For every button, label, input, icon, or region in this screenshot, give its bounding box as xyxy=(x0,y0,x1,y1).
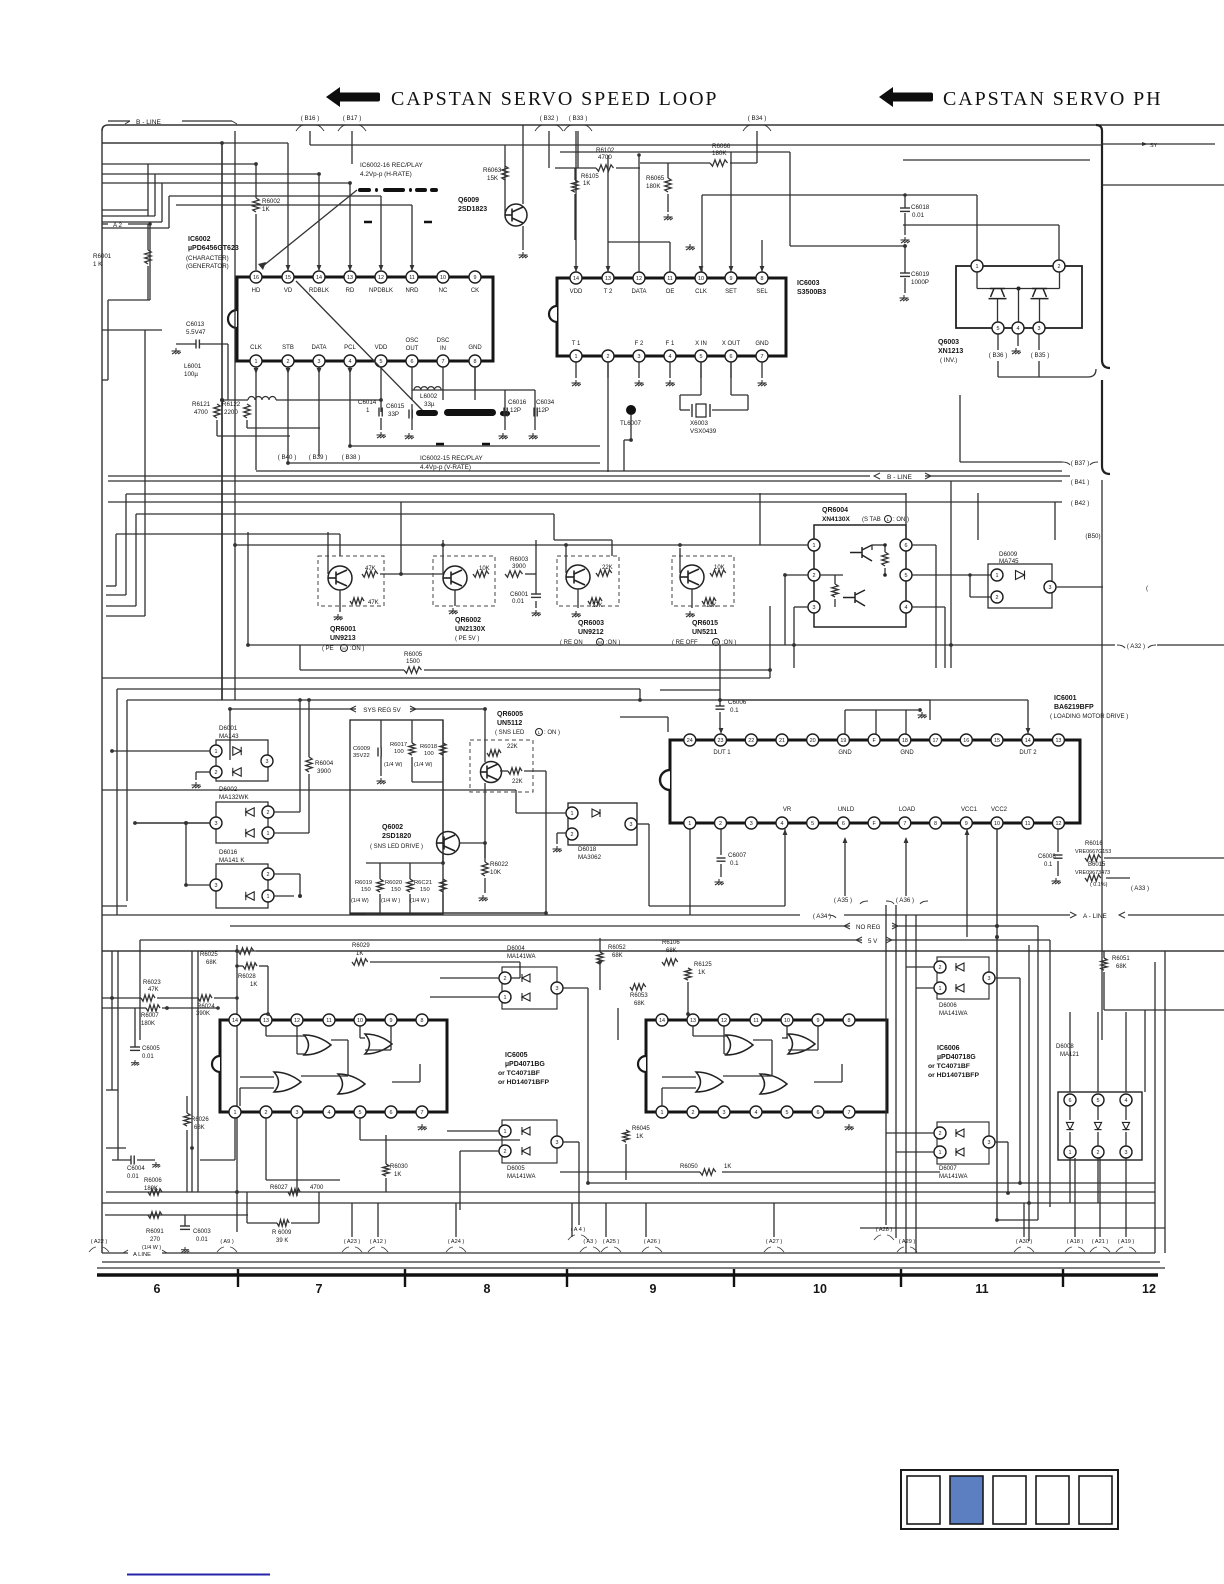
svg-text:14: 14 xyxy=(316,275,322,281)
svg-text:1: 1 xyxy=(939,1150,942,1156)
svg-text:QR6004: QR6004 xyxy=(822,507,848,514)
svg-text:( A29 ): ( A29 ) xyxy=(899,1239,916,1245)
svg-text:2: 2 xyxy=(504,976,507,982)
svg-text:1: 1 xyxy=(215,749,218,755)
svg-text:IC6002: IC6002 xyxy=(188,236,211,243)
svg-text:VCC2: VCC2 xyxy=(991,807,1008,813)
svg-text:4700: 4700 xyxy=(194,409,208,416)
svg-text:3: 3 xyxy=(266,759,269,765)
svg-text:µPD40718G: µPD40718G xyxy=(937,1054,976,1061)
svg-text:R6003: R6003 xyxy=(510,556,529,563)
svg-text:12: 12 xyxy=(1055,821,1061,827)
svg-text:3: 3 xyxy=(988,976,991,982)
svg-text:T 1: T 1 xyxy=(572,341,581,347)
svg-text:T 2: T 2 xyxy=(604,289,613,295)
svg-text:10: 10 xyxy=(994,821,1000,827)
svg-text:R6091: R6091 xyxy=(146,1229,164,1235)
svg-text:12: 12 xyxy=(1142,1282,1156,1296)
svg-text:7: 7 xyxy=(761,354,764,360)
svg-text:SY: SY xyxy=(1150,143,1158,149)
svg-text:IC6002-16 REC/PLAY: IC6002-16 REC/PLAY xyxy=(360,162,423,169)
svg-text:R6105: R6105 xyxy=(581,174,599,180)
svg-text:( A21 ): ( A21 ) xyxy=(1092,1239,1109,1245)
svg-text:10K: 10K xyxy=(479,566,490,572)
svg-text:6: 6 xyxy=(905,543,908,549)
svg-text:( 0.1%): ( 0.1%) xyxy=(1090,882,1108,888)
svg-text:(1/4 W ): (1/4 W ) xyxy=(410,898,429,904)
svg-text:BA6219BFP: BA6219BFP xyxy=(1054,704,1094,711)
svg-text:4: 4 xyxy=(669,354,672,360)
svg-text:D6006: D6006 xyxy=(939,1003,957,1009)
svg-text:8: 8 xyxy=(484,1282,491,1296)
svg-text::ON ): :ON ) xyxy=(350,646,364,652)
svg-text:CK: CK xyxy=(471,288,479,294)
svg-text:A - LINE: A - LINE xyxy=(1083,913,1107,920)
svg-text:1K: 1K xyxy=(250,982,257,988)
svg-text:9: 9 xyxy=(817,1018,820,1024)
svg-text:D6009: D6009 xyxy=(999,551,1018,558)
svg-text:12: 12 xyxy=(721,1018,727,1024)
svg-text:13: 13 xyxy=(1055,738,1061,744)
svg-text:5 V: 5 V xyxy=(868,938,878,945)
svg-text:PCL: PCL xyxy=(344,345,356,351)
svg-text:2SD1823: 2SD1823 xyxy=(458,206,487,213)
svg-text:B - LINE: B - LINE xyxy=(887,474,913,481)
svg-text:R6029: R6029 xyxy=(352,943,370,949)
svg-text:(1/4 W ): (1/4 W ) xyxy=(381,898,400,904)
svg-text:( INV.): ( INV.) xyxy=(940,357,957,364)
svg-text:68K: 68K xyxy=(612,953,623,959)
svg-text:4: 4 xyxy=(328,1110,331,1116)
svg-text:1: 1 xyxy=(504,1129,507,1135)
svg-text:( A36 ): ( A36 ) xyxy=(896,897,914,904)
svg-text:(B50): (B50) xyxy=(1085,533,1100,540)
svg-text:R6028: R6028 xyxy=(238,974,256,980)
svg-text:10: 10 xyxy=(784,1018,790,1024)
svg-text:13: 13 xyxy=(690,1018,696,1024)
svg-text:10: 10 xyxy=(813,1282,827,1296)
svg-text:( B17 ): ( B17 ) xyxy=(343,115,362,122)
svg-text:( A26 ): ( A26 ) xyxy=(644,1239,661,1245)
svg-text:LOAD: LOAD xyxy=(899,807,916,813)
svg-text:or HD14071BFP: or HD14071BFP xyxy=(498,1079,549,1086)
svg-text:R6026: R6026 xyxy=(191,1117,209,1123)
svg-text:R 6009: R 6009 xyxy=(272,1230,292,1236)
svg-text:C6005: C6005 xyxy=(142,1046,160,1052)
svg-text:14: 14 xyxy=(573,276,579,282)
svg-text:CLK: CLK xyxy=(250,345,262,351)
svg-text:( A24 ): ( A24 ) xyxy=(448,1239,465,1245)
svg-text:12P: 12P xyxy=(510,407,521,414)
svg-text:M: M xyxy=(598,640,602,645)
svg-text:CLK: CLK xyxy=(695,289,707,295)
svg-text:1: 1 xyxy=(255,359,258,365)
svg-text:R6065: R6065 xyxy=(646,175,665,182)
svg-text:1: 1 xyxy=(267,831,270,837)
svg-text:1: 1 xyxy=(813,543,816,549)
svg-text:6: 6 xyxy=(154,1282,161,1296)
svg-text:7: 7 xyxy=(848,1110,851,1116)
svg-text:R6C21: R6C21 xyxy=(414,880,432,886)
svg-text:C6018: C6018 xyxy=(911,204,930,211)
svg-text:C6019: C6019 xyxy=(911,271,930,278)
svg-text:H: H xyxy=(342,646,345,651)
svg-text:VD: VD xyxy=(284,288,293,294)
svg-text:150: 150 xyxy=(361,887,371,893)
svg-text:HD: HD xyxy=(252,288,261,294)
svg-text:NC: NC xyxy=(439,288,448,294)
svg-text:IC6002-15 REC/PLAY: IC6002-15 REC/PLAY xyxy=(420,455,483,462)
svg-text:B6015: B6015 xyxy=(1088,862,1106,868)
svg-text:STB: STB xyxy=(282,345,294,351)
svg-text:5: 5 xyxy=(786,1110,789,1116)
svg-text:C6003: C6003 xyxy=(193,1229,211,1235)
svg-text:14: 14 xyxy=(1025,738,1031,744)
svg-text:0.01: 0.01 xyxy=(912,212,925,219)
svg-text:4: 4 xyxy=(1125,1098,1128,1104)
svg-text:14: 14 xyxy=(659,1018,665,1024)
svg-text:20: 20 xyxy=(810,738,816,744)
svg-text:UN5112: UN5112 xyxy=(497,720,522,727)
svg-text:8: 8 xyxy=(848,1018,851,1024)
svg-text:L6002: L6002 xyxy=(420,393,438,400)
svg-text:( B36 ): ( B36 ) xyxy=(989,352,1008,359)
svg-text:µPD4071BG: µPD4071BG xyxy=(505,1061,545,1068)
svg-text:( A34 ): ( A34 ) xyxy=(813,913,831,920)
svg-text:(CHARACTER): (CHARACTER) xyxy=(186,255,229,262)
svg-text:47K: 47K xyxy=(368,600,379,606)
svg-text:180K: 180K xyxy=(712,150,727,157)
svg-text:NPDBLK: NPDBLK xyxy=(369,288,393,294)
svg-text:Q6002: Q6002 xyxy=(382,824,403,831)
svg-text:15K: 15K xyxy=(487,175,499,182)
svg-text:R6019: R6019 xyxy=(355,880,372,886)
svg-text:1: 1 xyxy=(366,407,370,414)
svg-text:(1/4 W ): (1/4 W ) xyxy=(142,1245,161,1251)
svg-text:100µ: 100µ xyxy=(184,371,198,378)
svg-text:OUT: OUT xyxy=(406,346,419,352)
svg-text:1: 1 xyxy=(1069,1150,1072,1156)
svg-text:Q6009: Q6009 xyxy=(458,197,479,204)
svg-text:DATA: DATA xyxy=(311,345,326,351)
svg-text:2: 2 xyxy=(939,1131,942,1137)
svg-text:R6006: R6006 xyxy=(144,1178,162,1184)
svg-text:QR6005: QR6005 xyxy=(497,711,523,718)
svg-text:IC6005: IC6005 xyxy=(505,1052,528,1059)
svg-text:( B42 ): ( B42 ) xyxy=(1071,500,1090,507)
svg-text:( A12 ): ( A12 ) xyxy=(370,1239,387,1245)
svg-text:R6106: R6106 xyxy=(662,940,680,946)
svg-text:A LINE: A LINE xyxy=(133,1252,151,1258)
svg-text:QR6001: QR6001 xyxy=(330,626,356,633)
svg-text:2: 2 xyxy=(267,810,270,816)
svg-text:R6017: R6017 xyxy=(390,742,407,748)
svg-text:(GENERATOR): (GENERATOR) xyxy=(186,263,229,270)
svg-text:2: 2 xyxy=(692,1110,695,1116)
svg-text:C6015: C6015 xyxy=(386,403,405,410)
svg-text:22: 22 xyxy=(748,738,754,744)
svg-text:R6125: R6125 xyxy=(694,962,712,968)
svg-text:R6002: R6002 xyxy=(262,198,281,205)
svg-text:68K: 68K xyxy=(1116,964,1127,970)
svg-text:UN2130X: UN2130X xyxy=(455,626,486,633)
svg-text:R6052: R6052 xyxy=(608,945,626,951)
svg-text:3: 3 xyxy=(1038,326,1041,332)
svg-text:GND: GND xyxy=(838,750,852,756)
svg-text:RD: RD xyxy=(346,288,355,294)
svg-text:8: 8 xyxy=(474,359,477,365)
svg-text:or TC4071BF: or TC4071BF xyxy=(928,1063,970,1070)
svg-text:( A3 ): ( A3 ) xyxy=(583,1239,597,1245)
svg-text:C6034: C6034 xyxy=(536,399,555,406)
svg-text:9: 9 xyxy=(650,1282,657,1296)
svg-text:( SNS LED DRIVE ): ( SNS LED DRIVE ) xyxy=(370,844,423,850)
svg-text:UN9213: UN9213 xyxy=(330,635,356,642)
svg-text:UNLD: UNLD xyxy=(838,807,855,813)
svg-text:( A28 ): ( A28 ) xyxy=(876,1227,893,1233)
svg-text:68K: 68K xyxy=(634,1001,645,1007)
svg-text:1K: 1K xyxy=(583,181,590,187)
svg-text:4: 4 xyxy=(905,605,908,611)
svg-text:24: 24 xyxy=(687,738,693,744)
svg-text:1K: 1K xyxy=(698,970,705,976)
svg-text:3: 3 xyxy=(638,354,641,360)
svg-text:47K: 47K xyxy=(365,566,376,572)
svg-text:2: 2 xyxy=(215,770,218,776)
svg-text:C6001: C6001 xyxy=(510,591,529,598)
svg-text:7: 7 xyxy=(316,1282,323,1296)
svg-text:R6020: R6020 xyxy=(385,880,402,886)
svg-text:( A25 ): ( A25 ) xyxy=(603,1239,620,1245)
svg-text:12: 12 xyxy=(378,275,384,281)
svg-text:( A30 ): ( A30 ) xyxy=(1016,1239,1033,1245)
svg-text:9: 9 xyxy=(474,275,477,281)
svg-text:10: 10 xyxy=(440,275,446,281)
svg-text:0.01: 0.01 xyxy=(512,598,525,605)
svg-text:5: 5 xyxy=(811,821,814,827)
svg-text:6: 6 xyxy=(730,354,733,360)
svg-text:( A9 ): ( A9 ) xyxy=(220,1239,234,1245)
svg-text:QR6015: QR6015 xyxy=(692,620,718,627)
svg-text:16: 16 xyxy=(253,275,259,281)
svg-text:MA141WA: MA141WA xyxy=(507,1174,535,1180)
svg-text:11: 11 xyxy=(326,1018,332,1024)
svg-text:or HD14071BFP: or HD14071BFP xyxy=(928,1072,979,1079)
svg-text:5: 5 xyxy=(905,573,908,579)
svg-text:( B16 ): ( B16 ) xyxy=(301,115,320,122)
svg-text:22K: 22K xyxy=(602,565,613,571)
svg-text:3: 3 xyxy=(750,821,753,827)
svg-text:GND: GND xyxy=(900,750,914,756)
svg-text:( B32 ): ( B32 ) xyxy=(540,115,559,122)
svg-text:VRE09673473: VRE09673473 xyxy=(1075,870,1110,876)
svg-text:OSC: OSC xyxy=(405,338,419,344)
svg-text:1: 1 xyxy=(976,264,979,270)
svg-text:R6045: R6045 xyxy=(632,1126,650,1132)
svg-text:1: 1 xyxy=(571,811,574,817)
svg-text:CAPSTAN SERVO SPEED LOOP: CAPSTAN SERVO SPEED LOOP xyxy=(391,88,718,110)
svg-text:12P: 12P xyxy=(538,407,549,414)
svg-text:5: 5 xyxy=(380,359,383,365)
svg-text:3: 3 xyxy=(556,1140,559,1146)
svg-text:C6016: C6016 xyxy=(508,399,527,406)
svg-text:3: 3 xyxy=(318,359,321,365)
svg-text:7: 7 xyxy=(903,821,906,827)
svg-text:R6122: R6122 xyxy=(222,401,241,408)
svg-text:SEL: SEL xyxy=(756,289,768,295)
svg-text:C6013: C6013 xyxy=(186,321,205,328)
svg-text:9: 9 xyxy=(390,1018,393,1024)
svg-text:11: 11 xyxy=(667,276,673,282)
svg-text:2: 2 xyxy=(287,359,290,365)
svg-text:2: 2 xyxy=(267,872,270,878)
svg-text:5: 5 xyxy=(700,354,703,360)
svg-text:OE: OE xyxy=(666,289,675,295)
svg-text:3: 3 xyxy=(215,883,218,889)
svg-text:11: 11 xyxy=(1025,821,1031,827)
svg-text:D6016: D6016 xyxy=(219,849,238,856)
svg-text:MA143: MA143 xyxy=(219,733,239,740)
svg-text:R6102: R6102 xyxy=(596,147,615,154)
svg-text:1K: 1K xyxy=(262,206,270,213)
svg-text:( B41 ): ( B41 ) xyxy=(1071,479,1090,486)
svg-text:VDD: VDD xyxy=(570,289,583,295)
svg-text:2: 2 xyxy=(939,965,942,971)
svg-text:C6014: C6014 xyxy=(358,399,377,406)
svg-text:MA141WA: MA141WA xyxy=(939,1011,967,1017)
svg-text:D6001: D6001 xyxy=(219,725,238,732)
svg-text:UN9212: UN9212 xyxy=(578,629,604,636)
svg-text:DSC: DSC xyxy=(437,338,450,344)
svg-text:13: 13 xyxy=(347,275,353,281)
svg-text:1000P: 1000P xyxy=(911,279,929,286)
svg-text:22K: 22K xyxy=(507,744,518,750)
svg-text:UN5211: UN5211 xyxy=(692,629,717,636)
svg-text:2: 2 xyxy=(265,1110,268,1116)
svg-text:NO REG: NO REG xyxy=(856,924,881,931)
svg-text:( LOADING MOTOR DRIVE ): ( LOADING MOTOR DRIVE ) xyxy=(1050,714,1128,720)
svg-text:15: 15 xyxy=(285,275,291,281)
svg-text:2: 2 xyxy=(813,573,816,579)
svg-text:IC6006: IC6006 xyxy=(937,1045,960,1052)
svg-text:R6018: R6018 xyxy=(420,744,437,750)
svg-text:19: 19 xyxy=(840,738,846,744)
svg-text:( B40 ): ( B40 ) xyxy=(278,454,297,461)
svg-text:3: 3 xyxy=(556,986,559,992)
svg-text:11: 11 xyxy=(409,275,415,281)
svg-text:10K: 10K xyxy=(490,869,502,876)
svg-text:XN1213: XN1213 xyxy=(938,348,963,355)
svg-text:( A22 ): ( A22 ) xyxy=(91,1239,108,1245)
svg-text:4: 4 xyxy=(1017,326,1020,332)
svg-text:100: 100 xyxy=(424,751,434,757)
svg-text:10: 10 xyxy=(698,276,704,282)
svg-text:R6005: R6005 xyxy=(404,651,423,658)
svg-text:3: 3 xyxy=(215,821,218,827)
svg-text:( A18 ): ( A18 ) xyxy=(1067,1239,1084,1245)
svg-text:6: 6 xyxy=(1069,1098,1072,1104)
svg-text:5: 5 xyxy=(997,326,1000,332)
svg-text:270: 270 xyxy=(150,1237,161,1243)
svg-text:12: 12 xyxy=(636,276,642,282)
svg-text:1: 1 xyxy=(661,1110,664,1116)
svg-text:QR6003: QR6003 xyxy=(578,620,604,627)
svg-text:X6003: X6003 xyxy=(690,420,708,427)
svg-text:CAPSTAN SERVO PH: CAPSTAN SERVO PH xyxy=(943,88,1162,110)
svg-text:0.01: 0.01 xyxy=(142,1054,154,1060)
svg-text:1500: 1500 xyxy=(406,658,420,665)
svg-text:IC6001: IC6001 xyxy=(1054,695,1077,702)
svg-text:17: 17 xyxy=(933,738,939,744)
svg-text:8: 8 xyxy=(421,1018,424,1024)
svg-text:16: 16 xyxy=(963,738,969,744)
svg-text:R6004: R6004 xyxy=(315,760,334,767)
svg-text:10: 10 xyxy=(357,1018,363,1024)
svg-text:MA141WA: MA141WA xyxy=(507,954,535,960)
svg-text:D6007: D6007 xyxy=(939,1166,957,1172)
svg-text:5.5V47: 5.5V47 xyxy=(186,329,206,336)
svg-text:R6030: R6030 xyxy=(390,1164,408,1170)
svg-text:68K: 68K xyxy=(194,1125,205,1131)
svg-text:4.4Vp-p (V-RATE): 4.4Vp-p (V-RATE) xyxy=(420,464,471,471)
svg-text:18: 18 xyxy=(902,738,908,744)
svg-text:RDBLK: RDBLK xyxy=(309,288,329,294)
svg-text:35V22: 35V22 xyxy=(353,753,370,759)
svg-text:13: 13 xyxy=(263,1018,269,1024)
svg-text:MA3062: MA3062 xyxy=(578,854,602,861)
svg-text:XN4130X: XN4130X xyxy=(822,516,850,523)
svg-text:C6004: C6004 xyxy=(127,1166,145,1172)
svg-text:R6007: R6007 xyxy=(141,1013,159,1019)
svg-text:2: 2 xyxy=(571,832,574,838)
svg-text:R6051: R6051 xyxy=(1112,956,1130,962)
svg-text:150: 150 xyxy=(420,887,430,893)
svg-text:µPD6456GT623: µPD6456GT623 xyxy=(188,245,239,252)
svg-text:MA141 K: MA141 K xyxy=(219,857,245,864)
svg-text:27K: 27K xyxy=(592,603,603,609)
svg-text:68K: 68K xyxy=(206,960,217,966)
svg-text:R6023: R6023 xyxy=(143,980,161,986)
svg-text:( B35 ): ( B35 ) xyxy=(1031,352,1050,359)
svg-text:VDD: VDD xyxy=(375,345,388,351)
svg-text:( B33 ): ( B33 ) xyxy=(569,115,588,122)
svg-text:33µ: 33µ xyxy=(424,401,435,408)
svg-text:1: 1 xyxy=(688,821,691,827)
svg-text:1: 1 xyxy=(575,354,578,360)
svg-text:VR: VR xyxy=(783,807,792,813)
svg-text:1: 1 xyxy=(996,573,999,579)
svg-text:4: 4 xyxy=(349,359,352,365)
svg-text:21: 21 xyxy=(779,738,785,744)
svg-text:( A35 ): ( A35 ) xyxy=(834,897,852,904)
svg-text:Q6003: Q6003 xyxy=(938,339,959,346)
svg-text:R6027: R6027 xyxy=(270,1185,288,1191)
svg-text:3: 3 xyxy=(630,822,633,828)
svg-text:DATA: DATA xyxy=(631,289,646,295)
svg-text:DUT 2: DUT 2 xyxy=(1019,750,1037,756)
svg-text:3: 3 xyxy=(1125,1150,1128,1156)
svg-text:10K: 10K xyxy=(714,565,725,571)
svg-text:IC6003: IC6003 xyxy=(797,280,820,287)
svg-text:3: 3 xyxy=(723,1110,726,1116)
svg-text:5: 5 xyxy=(1097,1098,1100,1104)
svg-text:: ON ): : ON ) xyxy=(544,730,560,736)
svg-text:(1/4 W): (1/4 W) xyxy=(414,762,432,768)
svg-text:2: 2 xyxy=(607,354,610,360)
svg-text:10K: 10K xyxy=(706,603,717,609)
svg-text:R6001: R6001 xyxy=(93,253,112,260)
svg-text:B - LINE: B - LINE xyxy=(136,119,162,126)
